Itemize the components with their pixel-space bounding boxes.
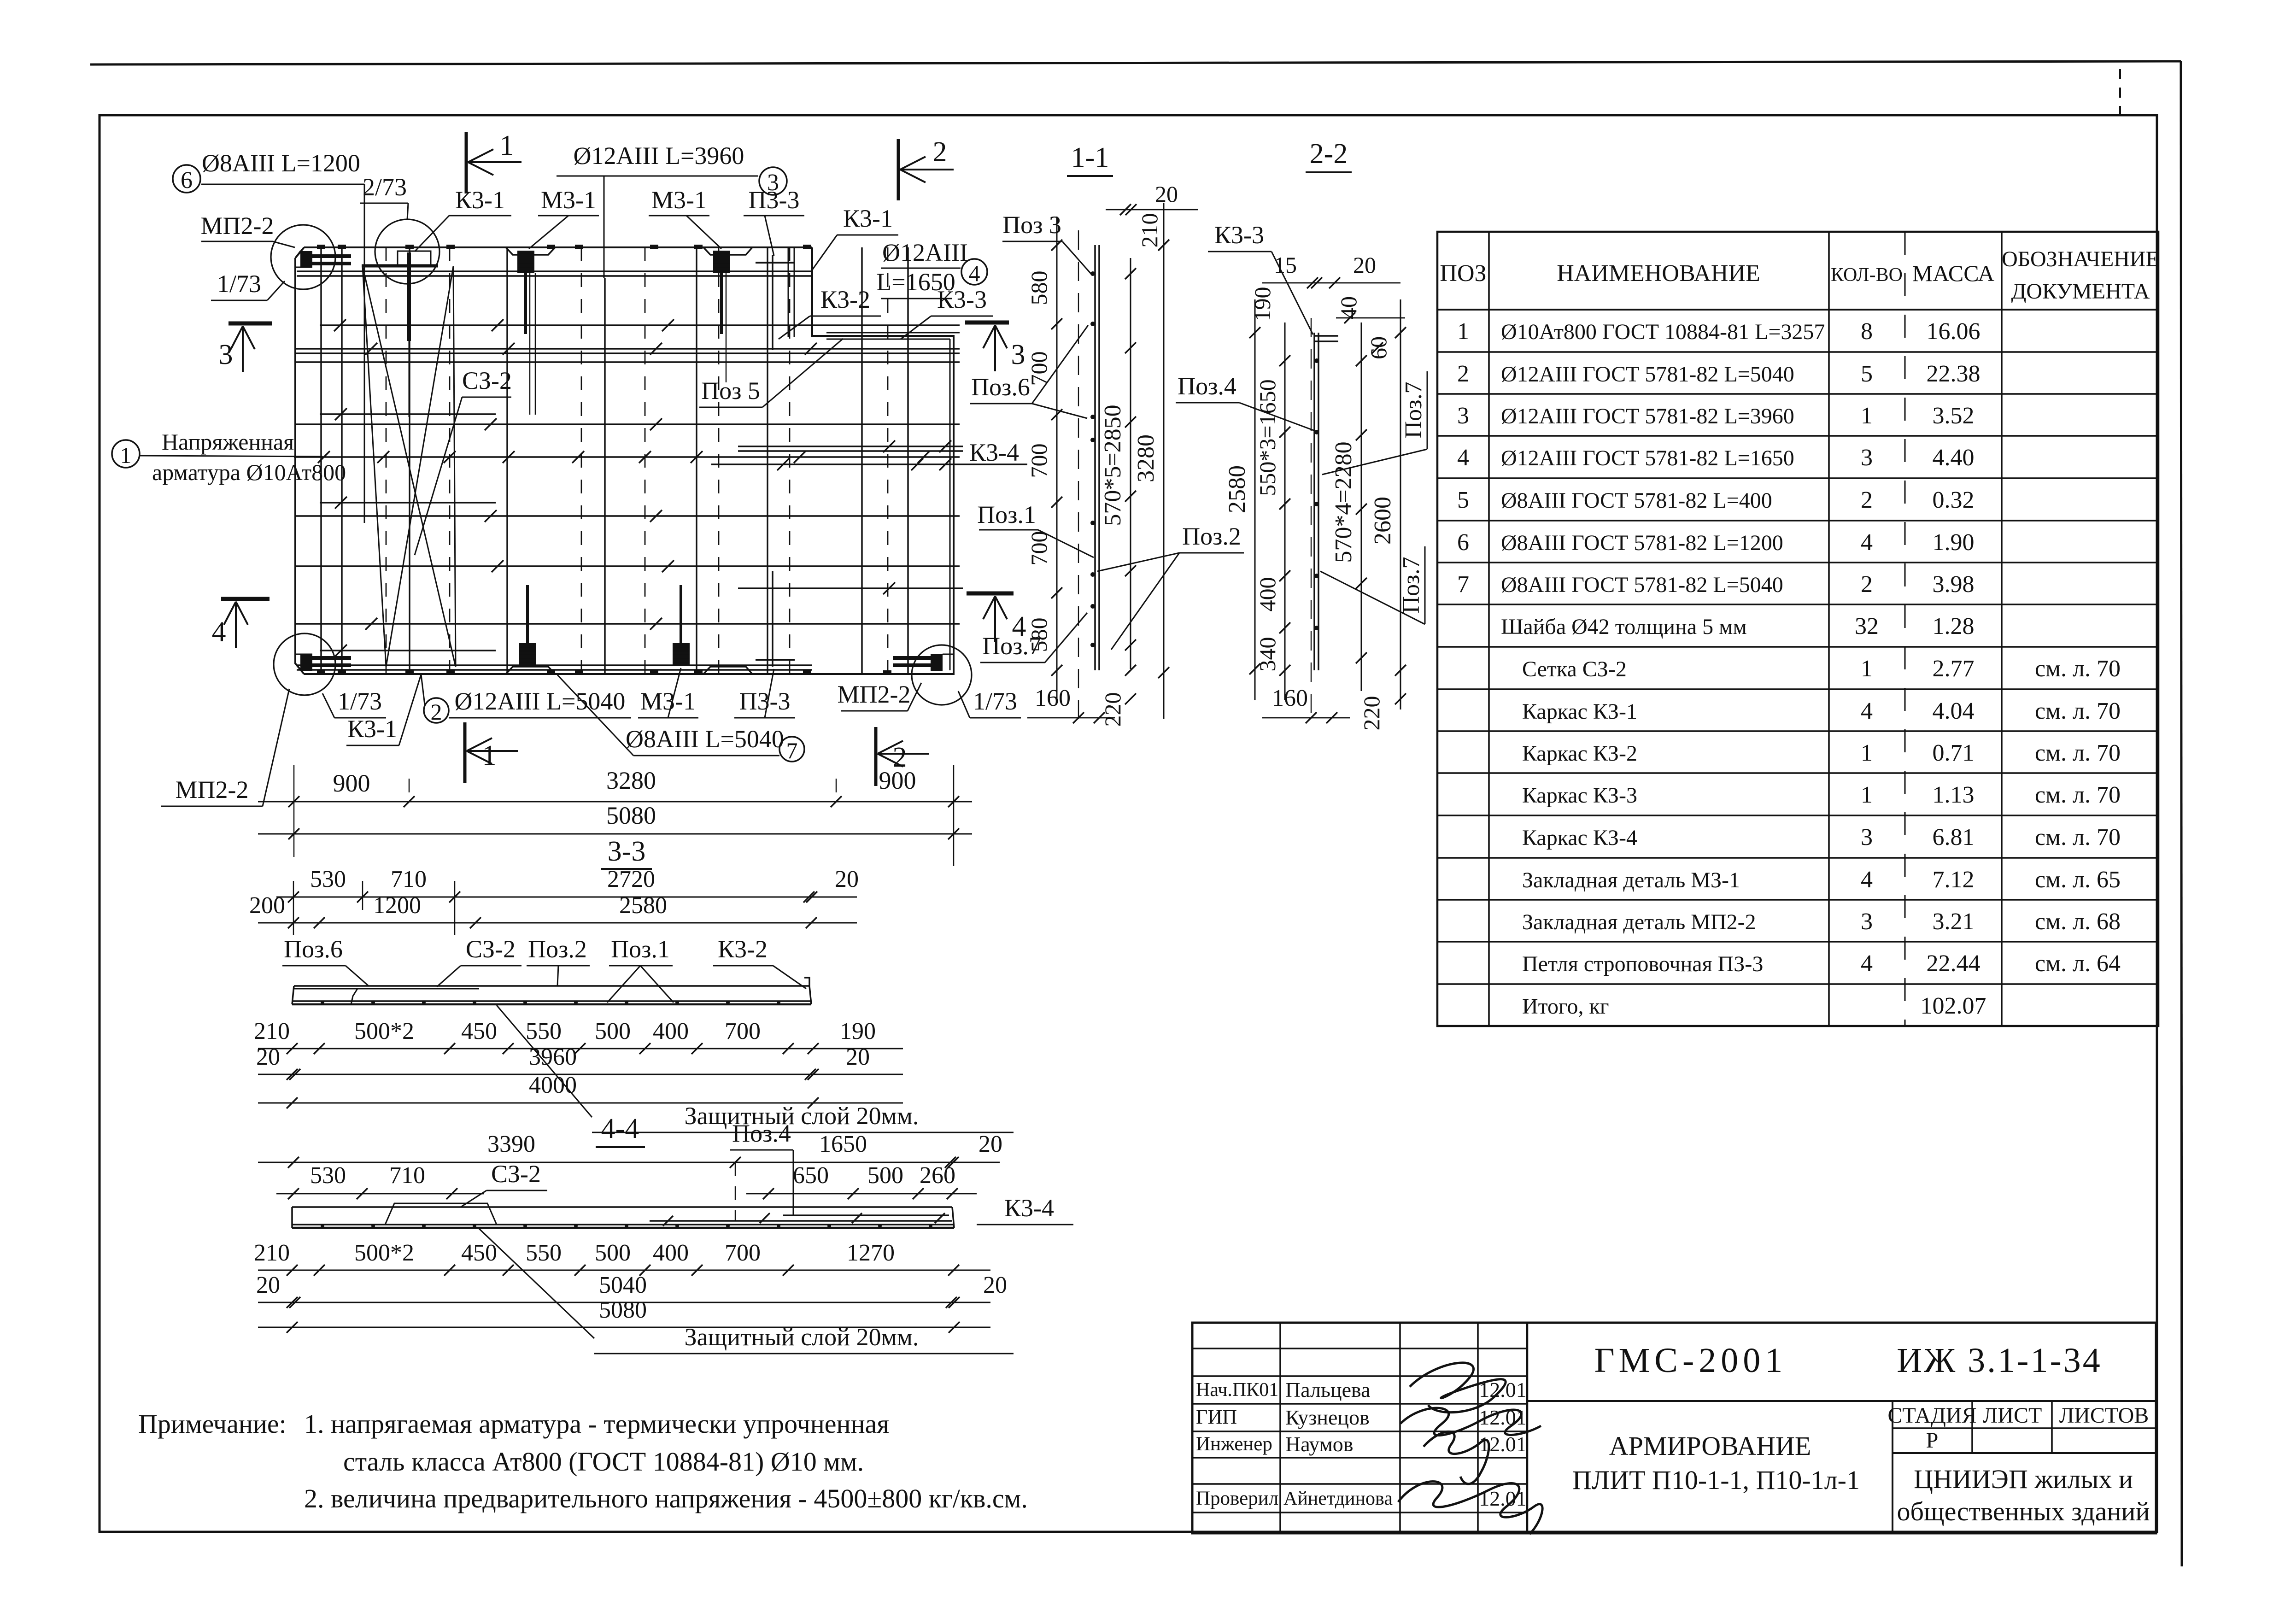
svg-text:ГИП: ГИП (1196, 1406, 1237, 1428)
section 3-3 slab body (292, 978, 811, 1004)
svg-text:3280: 3280 (606, 767, 656, 794)
callout circle 6 with text O8AIII L=1200 (173, 149, 364, 193)
label K3-4 with bar line to plan (969, 439, 1019, 466)
sheet right edge line (2120, 61, 2182, 1566)
svg-text:340: 340 (1254, 637, 1280, 672)
label M3-1 top-left with leader (529, 186, 599, 249)
svg-text:ЦНИИЭП жилых и: ЦНИИЭП жилых и (1914, 1464, 2133, 1494)
svg-text:ДОКУМЕНТА: ДОКУМЕНТА (2011, 279, 2150, 304)
svg-text:4: 4 (1861, 529, 1873, 556)
section 2-2 chain 550*3=1650 and 400 340 (1254, 322, 1290, 700)
svg-text:СЗ-2: СЗ-2 (462, 367, 512, 394)
svg-text:1.13: 1.13 (1933, 782, 1975, 808)
svg-text:см. л. 68: см. л. 68 (2035, 909, 2121, 935)
svg-text:2: 2 (933, 136, 947, 168)
svg-text:Поз.7: Поз.7 (1400, 381, 1427, 438)
svg-text:Каркас КЗ-4: Каркас КЗ-4 (1522, 826, 1637, 850)
label K3-1 bottom with leader (346, 674, 421, 745)
plan: prestressing bars - solid vertical lines (Poz.1) (321, 247, 908, 674)
sheet top edge line (90, 61, 2181, 64)
section 2-2 title (1306, 138, 1352, 172)
section 2-2 label K3-3 with leader (1208, 221, 1313, 334)
title block stadia texts (1887, 1403, 2149, 1453)
label 1/73 bottom-left with leader (322, 687, 386, 718)
svg-text:ЛИСТОВ: ЛИСТОВ (2059, 1403, 2149, 1428)
svg-text:Нач.ПК01: Нач.ПК01 (1196, 1379, 1278, 1401)
svg-text:МАССА: МАССА (1912, 260, 1994, 286)
parts table header text (1440, 247, 2159, 304)
svg-text:К3-2: К3-2 (718, 935, 768, 963)
label K3-1 top first with leader (415, 186, 511, 252)
svg-text:1.28: 1.28 (1933, 613, 1975, 639)
svg-text:650: 650 (793, 1162, 829, 1189)
plan: small black squares on slab edges at bar positions (317, 245, 891, 674)
section 3-3 protective layer callout (497, 1005, 1014, 1132)
svg-text:МП2-2: МП2-2 (838, 680, 911, 708)
svg-text:1. напрягаемая арматура - терм: 1. напрягаемая арматура - термически упр… (304, 1409, 889, 1439)
callout circle 1 label Napryazhennaya armatura O10At800 (112, 429, 346, 485)
svg-text:550: 550 (526, 1018, 562, 1044)
svg-text:4-4: 4-4 (601, 1113, 639, 1144)
section 1-1 label Poz.6 with two leaders (970, 325, 1088, 418)
svg-text:Ø12AIII L=3960: Ø12AIII L=3960 (574, 142, 744, 170)
svg-text:2.77: 2.77 (1933, 656, 1975, 682)
svg-text:К3-3: К3-3 (1214, 221, 1264, 249)
section 2-2 top dims 15 20 40 190 60 (1249, 252, 1405, 359)
svg-text:3: 3 (1861, 824, 1873, 850)
section marker 3 left (219, 323, 272, 372)
section 2-2 chain 570*4=2280 (1330, 322, 1367, 691)
signature squiggle Paltseva (1410, 1363, 1506, 1413)
svg-text:Ø8АIII ГОСТ 5781-82 L=400: Ø8АIII ГОСТ 5781-82 L=400 (1501, 488, 1772, 513)
section 2-2 chain 2580 (1224, 299, 1260, 700)
svg-text:ОБОЗНАЧЕНИЕ: ОБОЗНАЧЕНИЕ (2002, 247, 2159, 271)
svg-text:1: 1 (1861, 403, 1873, 429)
parts table grid (1437, 232, 2158, 1026)
svg-text:К3-1: К3-1 (455, 186, 505, 214)
section 3-3 top dim chain 530 710 2720 20 (276, 866, 859, 935)
svg-text:570*4=2280: 570*4=2280 (1330, 441, 1357, 563)
svg-text:3: 3 (1861, 909, 1873, 935)
svg-text:Поз.7: Поз.7 (1398, 557, 1424, 613)
label M3-1 bottom with leader (638, 668, 698, 718)
svg-text:Итого, кг: Итого, кг (1522, 994, 1609, 1019)
svg-text:1: 1 (1861, 740, 1873, 766)
svg-text:22.38: 22.38 (1927, 361, 1980, 387)
svg-text:3: 3 (1011, 339, 1025, 370)
section 3-3 overall 4000 (258, 1072, 903, 1108)
svg-text:Р: Р (1926, 1428, 1939, 1453)
svg-text:530: 530 (310, 1162, 346, 1189)
svg-text:2-2: 2-2 (1310, 138, 1348, 170)
svg-text:Ø8AIII L=1200: Ø8AIII L=1200 (202, 149, 360, 177)
svg-text:Примечание:: Примечание: (138, 1409, 287, 1439)
svg-text:Ø8AIII L=5040: Ø8AIII L=5040 (626, 725, 784, 753)
plan: C3-2 mesh crossing diagonals (363, 266, 456, 667)
svg-text:Петля строповочная ПЗ-3: Петля строповочная ПЗ-3 (1522, 952, 1763, 976)
label P3-3 bottom with leader (734, 669, 795, 718)
svg-text:900: 900 (333, 769, 370, 797)
section marker 2 top (898, 136, 954, 200)
section 3-3 labels Poz.6 C3-2 Poz.2 Poz.1 K3-2 with leaders (282, 935, 806, 1003)
section 3-3 chain 20 3960 20 (256, 1044, 903, 1080)
svg-text:4: 4 (1861, 698, 1873, 724)
svg-text:П3-3: П3-3 (739, 687, 791, 715)
svg-text:см. л. 64: см. л. 64 (2035, 950, 2121, 977)
svg-text:2. величина предварительного н: 2. величина предварительного напряжения … (304, 1483, 1028, 1513)
title block signature grid (1192, 1323, 1527, 1533)
svg-text:3-3: 3-3 (608, 836, 646, 867)
plan: lifting loop P3-3 bottom (756, 571, 795, 667)
plan: horizontal transverse bars with cut ticks (294, 271, 1027, 670)
plan: corner anchor MP2-2 top-left (hatched block and bars) (295, 251, 351, 268)
svg-text:3390: 3390 (487, 1131, 535, 1157)
svg-text:500: 500 (595, 1240, 631, 1266)
svg-text:500*2: 500*2 (354, 1240, 414, 1266)
svg-text:160: 160 (1272, 685, 1308, 711)
section 4-4 dim chain 530 710 - 650 500 260 (276, 1162, 977, 1199)
section marker 4 right (967, 593, 1026, 642)
svg-text:0.32: 0.32 (1933, 487, 1975, 513)
plan bottom overall dimension 5080 (258, 802, 972, 839)
svg-text:СТАДИЯ: СТАДИЯ (1887, 1403, 1976, 1428)
svg-text:Наумов: Наумов (1285, 1432, 1354, 1456)
svg-text:210: 210 (254, 1018, 290, 1044)
section marker 1 top (466, 130, 521, 193)
svg-text:3960: 3960 (529, 1044, 577, 1070)
svg-text:5080: 5080 (599, 1297, 647, 1323)
label P3-3 top with leader (744, 186, 804, 256)
section 2-2 label Poz.4 with leader (1176, 372, 1318, 432)
svg-text:Ø12AIII: Ø12AIII (882, 239, 968, 266)
section 4-4 label Poz.4 with vertical leader (730, 1120, 793, 1216)
svg-text:5: 5 (1861, 361, 1873, 387)
section marker 4 left (212, 599, 270, 648)
svg-text:К3-1: К3-1 (843, 205, 893, 232)
svg-text:220: 220 (1100, 692, 1125, 727)
signature squiggle Ainetdinova (1398, 1482, 1542, 1534)
svg-text:К3-4: К3-4 (1004, 1194, 1054, 1222)
svg-text:450: 450 (461, 1240, 497, 1266)
svg-text:3: 3 (219, 339, 233, 370)
svg-text:2/73: 2/73 (363, 173, 407, 201)
svg-text:500: 500 (595, 1018, 631, 1044)
svg-text:102.07: 102.07 (1921, 993, 1986, 1019)
svg-text:сталь класса Ат800 (ГОСТ 10884: сталь класса Ат800 (ГОСТ 10884-81) Ø10 м… (343, 1447, 864, 1477)
svg-text:Ø10Ат800 ГОСТ 10884-81 L=3257: Ø10Ат800 ГОСТ 10884-81 L=3257 (1501, 320, 1825, 344)
svg-text:20: 20 (979, 1131, 1002, 1157)
svg-text:Поз.2: Поз.2 (1182, 522, 1241, 550)
section 1-1 label Poz 3 with leader (1002, 211, 1091, 274)
svg-text:2580: 2580 (619, 892, 667, 919)
label K3-4 right of section 4-4 (977, 1194, 1073, 1225)
callout circle 3 with text O12AIII L=3960 and leader bar (557, 142, 787, 278)
svg-text:1.90: 1.90 (1933, 529, 1975, 556)
svg-text:МП2-2: МП2-2 (201, 212, 274, 240)
plan: embedded plate M3-1 bottom (left) (519, 585, 536, 666)
svg-text:900: 900 (879, 767, 916, 794)
signature squiggle Naumov (1424, 1432, 1489, 1484)
svg-text:К3-4: К3-4 (969, 439, 1019, 466)
svg-text:3.98: 3.98 (1933, 571, 1975, 598)
plan right vertical dimension chain 580 700x3 580 (1026, 217, 1062, 700)
svg-text:Шайба Ø42 толщина 5 мм: Шайба Ø42 толщина 5 мм (1501, 615, 1747, 639)
section 2-2 label Poz.7 lower rotated (1320, 546, 1425, 624)
svg-text:5080: 5080 (606, 802, 656, 829)
svg-text:1: 1 (120, 442, 132, 468)
plan: lifting loop P3-3 top (756, 255, 795, 350)
svg-text:700: 700 (725, 1018, 761, 1044)
svg-text:4: 4 (212, 616, 226, 648)
svg-text:3: 3 (1861, 445, 1873, 471)
label MP2-2 top-left with leader (201, 212, 295, 247)
svg-text:Защитный слой 20мм.: Защитный слой 20мм. (685, 1323, 919, 1351)
svg-text:Пальцева: Пальцева (1285, 1378, 1371, 1401)
svg-text:1650: 1650 (819, 1131, 867, 1157)
plan view: slab outline with top-right notch (295, 247, 954, 674)
svg-text:1/73: 1/73 (338, 687, 382, 715)
svg-text:СЗ-2: СЗ-2 (491, 1160, 541, 1188)
svg-text:Поз 5: Поз 5 (701, 377, 760, 405)
svg-text:400: 400 (653, 1240, 689, 1266)
svg-text:Поз.2: Поз.2 (528, 935, 587, 963)
svg-text:4: 4 (969, 260, 980, 286)
svg-text:2720: 2720 (607, 866, 655, 892)
svg-text:2: 2 (1457, 361, 1469, 387)
svg-text:700: 700 (1026, 531, 1052, 566)
svg-text:Ø8АIII ГОСТ 5781-82 L=504: Ø8АIII ГОСТ 5781-82 L=5040 (1501, 573, 1783, 597)
svg-text:М3-1: М3-1 (651, 186, 707, 214)
notes Primechanie (138, 1409, 1028, 1513)
svg-text:общественных зданий: общественных зданий (1897, 1496, 2150, 1526)
label 2/73 with leader to detail circle (360, 173, 408, 220)
svg-text:КОЛ-ВО: КОЛ-ВО (1831, 264, 1903, 286)
svg-text:арматура Ø10Ат800: арматура Ø10Ат800 (152, 459, 346, 485)
section 1-1 bottom dim 160 and 220 (1027, 685, 1115, 723)
label M3-1 top-right with leader (649, 186, 721, 249)
svg-text:Поз.1: Поз.1 (977, 501, 1036, 528)
svg-text:20: 20 (1353, 252, 1376, 278)
svg-text:20: 20 (846, 1044, 870, 1070)
svg-text:см. л. 70: см. л. 70 (2035, 740, 2121, 766)
svg-text:4: 4 (1861, 867, 1873, 893)
plan: callout 6 bar line (O8AIII L=1200) (364, 184, 365, 523)
svg-text:7: 7 (786, 738, 798, 763)
svg-text:Поз.1: Поз.1 (611, 935, 670, 963)
svg-text:7.12: 7.12 (1933, 867, 1975, 893)
svg-text:580: 580 (1026, 271, 1052, 305)
svg-text:СЗ-2: СЗ-2 (466, 935, 516, 963)
svg-text:ИЖ 3.1-1-34: ИЖ 3.1-1-34 (1897, 1341, 2102, 1380)
svg-text:Поз.6: Поз.6 (284, 935, 343, 963)
section marker 3 right (965, 322, 1025, 371)
svg-text:260: 260 (920, 1162, 955, 1189)
svg-text:К3-1: К3-1 (347, 715, 397, 743)
svg-text:Ø12АIII ГОСТ 5781-82 L=504: Ø12АIII ГОСТ 5781-82 L=5040 (1501, 362, 1794, 387)
svg-text:2: 2 (1861, 487, 1873, 513)
svg-text:4.04: 4.04 (1933, 698, 1975, 724)
svg-text:550*3=1650: 550*3=1650 (1254, 379, 1280, 496)
plan: detail circle 2/73 top (K3-1) (362, 219, 439, 417)
svg-text:710: 710 (389, 1162, 425, 1189)
section 4-4 protective layer callout (479, 1229, 1014, 1354)
plan: detail circle 1/73 bottom-left corner (274, 633, 335, 695)
svg-text:40: 40 (1336, 296, 1361, 319)
svg-text:Айнетдинова: Айнетдинова (1283, 1488, 1393, 1509)
svg-text:Проверил: Проверил (1196, 1488, 1278, 1509)
callout circle 7 with text O8AIII L=5040 (557, 675, 804, 763)
svg-text:2600: 2600 (1370, 497, 1396, 545)
svg-text:Напряженная: Напряженная (162, 429, 294, 455)
title block drawing name (1572, 1431, 1860, 1495)
section 1-1 vertical chain 570*5=2850 (1100, 258, 1136, 727)
section 1-1 top dim 20 and 210 (1106, 181, 1198, 251)
svg-text:Сетка СЗ-2: Сетка СЗ-2 (1522, 657, 1627, 681)
svg-text:К3-2: К3-2 (820, 286, 870, 313)
title block organization name (1897, 1464, 2150, 1526)
svg-text:550: 550 (526, 1240, 562, 1266)
section 1-1 rebar dots (1090, 271, 1095, 647)
svg-text:Кузнецов: Кузнецов (1285, 1406, 1370, 1429)
svg-text:1/73: 1/73 (217, 270, 261, 298)
plan: detail circle 1/73 bottom-right corner (912, 645, 972, 705)
svg-text:190: 190 (1249, 287, 1275, 322)
svg-text:1: 1 (1861, 782, 1873, 808)
section 3-3 title (601, 836, 652, 869)
svg-text:1: 1 (1861, 656, 1873, 682)
section 2-2 label Poz.7 upper rotated (1322, 371, 1427, 475)
parts table rows text (1457, 318, 2121, 1019)
svg-text:570*5=2850: 570*5=2850 (1100, 405, 1126, 526)
svg-text:7: 7 (1457, 571, 1469, 598)
svg-text:1270: 1270 (847, 1240, 895, 1266)
section 4-4 slab body with C3-2 bump and K3-4 bars (292, 1203, 954, 1228)
section 3-3 dim chain 200 1200 2580 (249, 892, 857, 928)
svg-text:АРМИРОВАНИЕ: АРМИРОВАНИЕ (1609, 1431, 1811, 1461)
title block outline (1192, 1323, 2156, 1533)
section 4-4 overall 5080 (258, 1297, 990, 1333)
svg-text:Поз.7: Поз.7 (982, 632, 1041, 660)
svg-text:1: 1 (1457, 318, 1469, 345)
svg-text:16.06: 16.06 (1927, 318, 1980, 345)
svg-text:400: 400 (653, 1018, 689, 1044)
svg-text:20: 20 (835, 866, 859, 892)
label K3-1 top-right with leader (811, 205, 898, 272)
plan bottom dimension chain 900 3280 900 (258, 765, 972, 866)
section 4-4 top dim chain 3390 1650 20 (258, 1131, 1002, 1221)
svg-text:Каркас КЗ-3: Каркас КЗ-3 (1522, 783, 1637, 808)
svg-text:12.01: 12.01 (1479, 1432, 1527, 1456)
svg-text:Ø12АIII ГОСТ 5781-82 L=396: Ø12АIII ГОСТ 5781-82 L=3960 (1501, 404, 1794, 428)
section 2-2 chain 2600 (1370, 299, 1406, 709)
svg-text:20: 20 (256, 1272, 280, 1298)
svg-text:450: 450 (461, 1018, 497, 1044)
plan: corner anchor MP2-2 bottom-left (295, 654, 351, 671)
plan: K3-1 carcass verticals near notch (788, 247, 794, 337)
callout circle 2 with text O12AIII L=5040 (421, 674, 631, 725)
svg-text:ПОЗ: ПОЗ (1440, 260, 1486, 287)
svg-text:22.44: 22.44 (1927, 950, 1980, 977)
svg-text:см. л. 70: см. л. 70 (2035, 824, 2121, 850)
plan: embedded plate M3-1 bottom (right) (673, 585, 690, 666)
svg-text:20: 20 (256, 1044, 280, 1070)
svg-text:3.21: 3.21 (1933, 909, 1975, 935)
svg-text:ЛИСТ: ЛИСТ (1983, 1403, 2042, 1428)
svg-text:1/73: 1/73 (973, 687, 1017, 715)
svg-text:190: 190 (840, 1018, 876, 1044)
svg-text:1: 1 (482, 740, 497, 771)
label K3-3 with leader to notch edge (901, 286, 993, 339)
svg-text:210: 210 (1137, 213, 1162, 248)
label MP2-2 bottom-right with leader (838, 680, 922, 711)
label Poz 5 with leader (699, 339, 843, 407)
svg-text:см. л. 70: см. л. 70 (2035, 656, 2121, 682)
svg-text:15: 15 (1274, 252, 1297, 278)
svg-text:3: 3 (1457, 403, 1469, 429)
svg-text:2: 2 (1861, 571, 1873, 598)
svg-text:400: 400 (1254, 577, 1280, 612)
svg-text:6: 6 (1457, 529, 1469, 556)
plan: inner edge lines of notch (Poz 5 bars) (826, 333, 960, 670)
svg-text:4.40: 4.40 (1933, 445, 1975, 471)
section 1-1 vertical chain 3280 (1133, 203, 1169, 719)
svg-text:Закладная деталь МЗ-1: Закладная деталь МЗ-1 (1522, 868, 1740, 892)
svg-text:см. л. 70: см. л. 70 (2035, 698, 2121, 724)
svg-text:20: 20 (983, 1272, 1007, 1298)
signature squiggle Kuznetsov (1400, 1408, 1541, 1435)
svg-text:2: 2 (431, 699, 442, 725)
svg-text:160: 160 (1035, 685, 1071, 711)
svg-text:500: 500 (867, 1162, 903, 1189)
svg-text:500*2: 500*2 (354, 1018, 414, 1044)
svg-text:ГМС-2001: ГМС-2001 (1594, 1341, 1787, 1380)
svg-text:Инженер: Инженер (1196, 1433, 1272, 1455)
title block stadia list grid (1527, 1401, 2156, 1533)
svg-text:М3-1: М3-1 (640, 687, 696, 715)
section 4-4 chain 20 5040 20 (256, 1272, 1007, 1308)
svg-text:32: 32 (1855, 613, 1879, 639)
svg-text:Каркас КЗ-1: Каркас КЗ-1 (1522, 699, 1637, 724)
plan: detail circle 1/73 top-left corner (271, 225, 335, 289)
section 2-2 rebar dots (1314, 358, 1319, 630)
svg-text:см. л. 65: см. л. 65 (2035, 867, 2121, 893)
svg-text:3.52: 3.52 (1933, 403, 1975, 429)
section marker 2 bottom (876, 727, 929, 786)
section 1-1 label Poz.2 with two leaders (1097, 522, 1244, 650)
svg-text:5040: 5040 (599, 1272, 647, 1298)
svg-text:0.71: 0.71 (1933, 740, 1975, 766)
svg-text:20: 20 (1155, 181, 1178, 207)
svg-text:6.81: 6.81 (1933, 824, 1975, 850)
section 3-3 bottom chain 210 500*2 450 550 500 400 700 190 (254, 1018, 903, 1054)
drawing frame border (100, 115, 2157, 1532)
svg-text:5: 5 (1457, 487, 1469, 513)
label 1/73 top-left with leader (211, 270, 285, 300)
svg-text:Ø8АIII ГОСТ 5781-82 L=120: Ø8АIII ГОСТ 5781-82 L=1200 (1501, 531, 1783, 555)
svg-text:4000: 4000 (529, 1072, 577, 1098)
svg-text:8: 8 (1861, 318, 1873, 345)
label C3-2 with leader to mesh (415, 367, 512, 555)
label O12AIII L=1650 with circle 4 in notch (876, 239, 987, 299)
section 2-2 slab strip (1311, 318, 1338, 719)
svg-text:Поз 3: Поз 3 (1002, 211, 1061, 239)
label K3-2 with leader to notch edge (779, 286, 881, 339)
svg-text:530: 530 (310, 866, 346, 892)
section 2-2 bottom dim 160 220 (1262, 685, 1406, 731)
label 1/73 bottom-right with leader (958, 687, 1021, 718)
svg-text:6: 6 (181, 167, 193, 193)
svg-text:4: 4 (1861, 950, 1873, 977)
